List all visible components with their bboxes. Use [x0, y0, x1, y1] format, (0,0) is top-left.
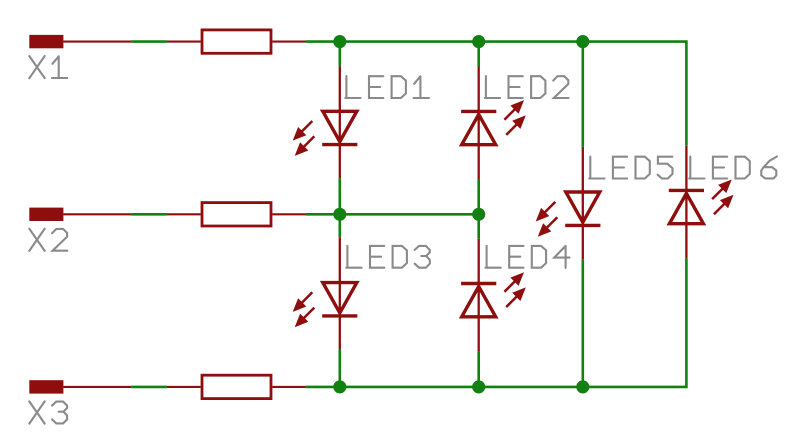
wire bottom rail net	[306, 258, 687, 387]
wire col1 LED1 top stub	[338, 42, 341, 67]
label X1	[29, 56, 67, 78]
LED5 symbol (pointing down)	[536, 192, 601, 237]
connector pad X3	[29, 380, 63, 393]
LED1 symbol (pointing down)	[293, 111, 358, 156]
junction top rail col1	[333, 35, 346, 48]
pin wire net to R3	[167, 386, 201, 388]
label LED6	[689, 157, 777, 179]
wire col3 LED5 bottom stub	[581, 259, 584, 387]
pin wire R2 right	[272, 213, 305, 215]
wire col2 LED2 top stub	[477, 42, 480, 67]
label LED4	[486, 246, 570, 268]
resistor R2	[202, 203, 271, 226]
pin wire net to R1	[167, 41, 201, 43]
pin LED3 anode	[339, 237, 341, 316]
junction top rail col3	[576, 35, 589, 48]
pin wire X3 to net	[63, 386, 131, 388]
LED2 arrows	[504, 100, 524, 120]
pin LED3 cathode	[339, 316, 341, 350]
pin LED1 anode	[339, 66, 341, 144]
resistor R3	[202, 375, 271, 398]
resistor R1	[202, 30, 271, 53]
LED3 arrows	[293, 292, 313, 312]
LED2 symbol (pointing up)	[461, 100, 526, 145]
wire middle rail net	[306, 213, 479, 216]
pin LED4 anode	[478, 284, 480, 352]
wire col1 LED3 bottom stub	[338, 350, 341, 387]
wire col2 LED2 bottom stub	[477, 179, 480, 214]
pin wire X1 to net	[63, 41, 131, 43]
connector pad X1	[29, 35, 63, 48]
LED4 arrows	[504, 272, 524, 292]
LED6 symbol (pointing up)	[669, 180, 734, 224]
pin LED2 cathode	[478, 67, 480, 112]
junction mid rail col2	[472, 208, 485, 221]
pin wire X2 to net	[63, 213, 131, 215]
pin LED5 anode	[582, 147, 584, 226]
pin LED2 anode	[478, 111, 480, 179]
junction bottom rail col2	[472, 380, 485, 393]
pin wire R1 right	[272, 41, 305, 43]
pin LED5 cathode	[582, 225, 584, 259]
LED5 arrows	[536, 202, 556, 222]
wire col2 LED4 bottom stub	[477, 351, 480, 387]
label X2	[29, 229, 67, 251]
wire net X3-R3 bottom row short segment	[131, 386, 167, 389]
wire net X2-R2 mid row short segment	[131, 213, 167, 216]
junction top rail col2	[472, 35, 485, 48]
label LED1	[345, 76, 429, 98]
pin LED4 cathode	[478, 239, 480, 284]
LED1 arrows	[293, 121, 313, 141]
pin wire R3 right	[272, 386, 305, 388]
LED4 symbol (pointing up)	[461, 272, 526, 317]
pin LED6 cathode	[685, 146, 687, 191]
junction mid rail col1	[333, 208, 346, 221]
wire col3 LED5 top stub	[581, 42, 584, 147]
LED6 arrows	[712, 180, 732, 200]
wire net X1-R1 top row short segment	[131, 40, 167, 43]
pin LED6 anode	[685, 190, 687, 258]
pin LED1 cathode	[339, 145, 341, 179]
pin wire net to R2	[167, 213, 201, 215]
wire top rail net	[306, 42, 687, 146]
wire col2 LED4 top stub	[477, 214, 480, 239]
LED3 symbol (pointing down)	[293, 283, 358, 328]
label LED3	[346, 246, 430, 268]
wire col1 LED3 top stub	[338, 214, 341, 237]
junction bottom rail col3	[576, 380, 589, 393]
label X3	[29, 401, 67, 423]
wire col1 LED1 bottom stub	[338, 178, 341, 214]
label LED5	[589, 157, 672, 179]
label LED2	[485, 76, 569, 98]
junction bottom rail col1	[333, 380, 346, 393]
connector pad X2	[29, 208, 63, 221]
